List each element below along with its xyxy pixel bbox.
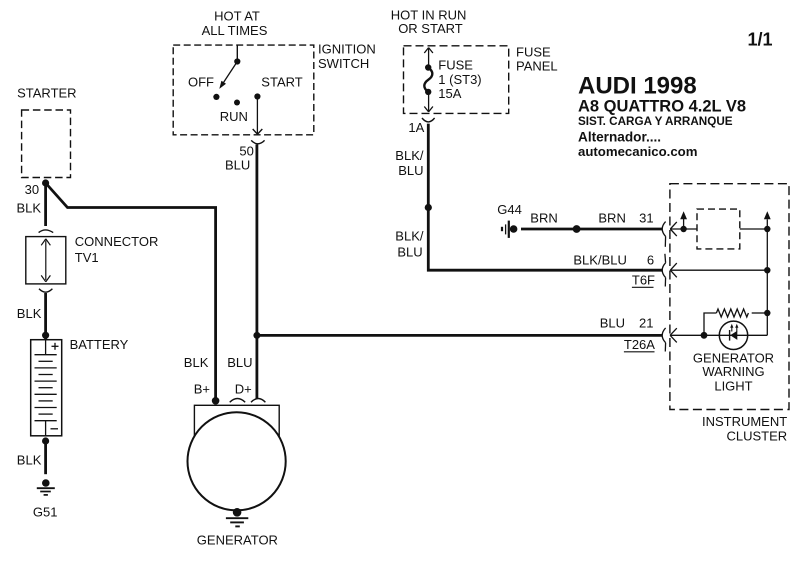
node: generator ground [233,508,242,517]
wire BLK/BLU: fuse to cluster terminal 6 [428,124,662,271]
svg-text:50: 50 [239,144,253,159]
label: HOT IN RUN OR START [391,7,467,36]
connector TV1 bottom (female cup) [39,289,52,292]
node: starter terminal 30 [42,179,49,186]
node: battery negative [42,437,49,444]
svg-text:WARNING: WARNING [702,364,764,379]
label BLK/ BLU (lower) [395,228,424,259]
battery cell plates [35,340,57,436]
contact RUN [234,100,240,106]
svg-text:BRN: BRN [598,210,625,225]
svg-text:30: 30 [25,182,39,197]
contact OFF [213,94,219,100]
svg-text:START: START [261,75,302,90]
svg-text:HOT AT: HOT AT [214,9,260,24]
svg-text:B+: B+ [194,382,210,397]
resistor branch wire [704,313,716,335]
ignition switch S1 box [173,45,314,135]
arrow up (cluster 31 branch) [680,211,687,229]
wire BLK: starter 30 to generator B+ [46,183,216,401]
svg-text:BLK: BLK [17,452,42,467]
svg-text:21: 21 [639,316,653,331]
svg-text:T6F: T6F [632,273,655,288]
wire: START contact down to terminal 50 with arrowhead [253,96,263,134]
wire: terminal 21 to LED and bus [670,334,767,336]
svg-text:RUN: RUN [220,109,248,124]
battery box [31,340,62,436]
svg-text:FUSE: FUSE [516,44,551,59]
label: IGNITION SWITCH [318,42,376,71]
svg-text:15A: 15A [438,86,461,101]
svg-text:ALL TIMES: ALL TIMES [202,23,268,38]
connector terminal 21 (arc + arrow) [662,328,677,352]
label GENERATOR WARNING LIGHT [693,351,774,394]
battery plus sign [52,343,59,350]
fuse F1 element (squiggle) [424,68,432,92]
generator ground symbol [226,518,248,526]
svg-text:FUSE: FUSE [438,58,473,73]
svg-text:6: 6 [647,252,654,267]
TV1 internal double arrow [41,239,50,282]
node: BLK/BLU junction [425,204,432,211]
svg-text:A8 QUATTRO 4.2L V8: A8 QUATTRO 4.2L V8 [578,98,746,116]
svg-text:SWITCH: SWITCH [318,56,369,71]
wire: dashed box to right bus [740,228,768,230]
connector TV1 top (male bump) [39,230,54,233]
arrow up (right bus) [764,211,771,219]
wire BLK: starter 30 down to connector TV1 [44,183,47,226]
svg-text:BRN: BRN [530,210,557,225]
label T6F underlined [632,273,655,288]
svg-text:BLU: BLU [397,244,422,259]
label BLK/ BLU (upper) [395,148,424,178]
generator housing rect [194,405,279,437]
svg-text:T26A: T26A [624,337,655,352]
node: bus at 31 row [764,226,770,232]
svg-text:BLU: BLU [398,163,423,178]
svg-text:TV1: TV1 [75,250,99,265]
LED warning lamp circle [719,321,747,349]
svg-text:BLK: BLK [17,201,42,216]
ground G44 symbol [502,221,517,238]
svg-text:CLUSTER: CLUSTER [727,429,788,444]
svg-text:BLU: BLU [225,158,250,173]
wire: terminal 31 into cluster [670,228,697,230]
svg-text:1 (ST3): 1 (ST3) [438,72,481,87]
svg-text:BLK/: BLK/ [395,228,424,243]
svg-text:IGNITION: IGNITION [318,42,376,57]
resistor to bus wire [752,312,768,314]
fuse feed arrow up [424,48,433,68]
wire: hot feed into ignition switch [236,45,238,61]
connector terminal 31 (arc + arrow) [662,222,677,247]
node: bus at 6 row [764,267,770,273]
svg-text:SIST. CARGA Y ARRANQUE: SIST. CARGA Y ARRANQUE [578,115,733,128]
label INSTRUMENT CLUSTER [702,414,787,444]
svg-text:BLK: BLK [184,355,209,370]
svg-text:GENERATOR: GENERATOR [197,532,278,547]
switch blade toward OFF [219,62,237,89]
node: battery positive [42,332,49,339]
battery minus sign [51,428,59,430]
resistor R (zigzag) [716,309,748,317]
node: generator B+ terminal [212,397,220,405]
wire BLK: TV1 to battery [44,293,47,339]
svg-text:G51: G51 [33,505,58,520]
label FUSE 1 (ST3) 15A [438,58,481,102]
svg-text:LIGHT: LIGHT [714,379,752,394]
instrument cluster box [670,184,789,410]
node: fuse top [425,64,431,70]
svg-text:Alternador....: Alternador.... [578,130,661,145]
node: lamp branch [701,332,708,339]
svg-text:31: 31 [639,210,653,225]
svg-text:D+: D+ [235,382,252,397]
connector below fuse panel (female cup) [422,118,435,122]
wire: terminal 6 to right bus [670,269,767,271]
wire BRN: G44 to cluster terminal 31 [521,228,662,231]
svg-text:BLK/: BLK/ [395,148,424,163]
generator D+ terminal arcs [230,399,266,403]
label T26A underlined [624,337,655,352]
node: fuse bottom [425,89,431,95]
svg-text:BATTERY: BATTERY [70,337,129,352]
wire BLU: junction to instrument cluster terminal 21 [257,334,662,337]
svg-text:INSTRUMENT: INSTRUMENT [702,414,787,429]
svg-text:OFF: OFF [188,75,214,90]
svg-text:1/1: 1/1 [748,30,773,50]
svg-text:automecanico.com: automecanico.com [578,144,697,159]
connector terminal 6 (arc + arrow) [662,254,677,287]
svg-text:BLU: BLU [600,316,625,331]
svg-text:AUDI 1998: AUDI 1998 [578,73,697,100]
label: HOT AT ALL TIMES [202,9,268,38]
svg-text:CONNECTOR: CONNECTOR [75,234,159,249]
label FUSE PANEL [516,44,558,73]
svg-text:G44: G44 [497,202,522,217]
svg-text:PANEL: PANEL [516,58,558,73]
right bus vertical wire [766,219,768,335]
wire BLU: terminal 50 to generator D+ [255,144,258,399]
label CONNECTOR TV1 [75,234,159,265]
svg-text:BLK/BLU: BLK/BLU [573,252,626,267]
starter box [22,110,71,178]
LED diode triangle and bar [730,330,738,341]
generator body circle [188,412,286,510]
connector TV1 box [26,237,66,284]
node: BLU junction to cluster [253,332,260,339]
svg-text:OR START: OR START [398,21,463,36]
node: cluster 31 branch [680,226,686,232]
wire BLK: battery to ground G51 [44,441,47,474]
cluster internal dashed box [697,209,740,249]
LED light arrows [730,324,738,332]
contact START [254,93,260,99]
svg-text:1A: 1A [408,120,424,135]
fuse output arrow down [424,92,433,112]
node: bus at resistor row [764,310,770,316]
fuse panel box [404,46,509,114]
svg-text:BLK: BLK [17,306,42,321]
ground G51 symbol [37,479,55,495]
svg-text:STARTER: STARTER [17,85,76,100]
node: ignition switch battery terminal [234,58,240,64]
connector terminal 50 (female cup) [251,140,264,143]
svg-text:BLU: BLU [227,355,252,370]
node: BRN splice [573,225,581,233]
